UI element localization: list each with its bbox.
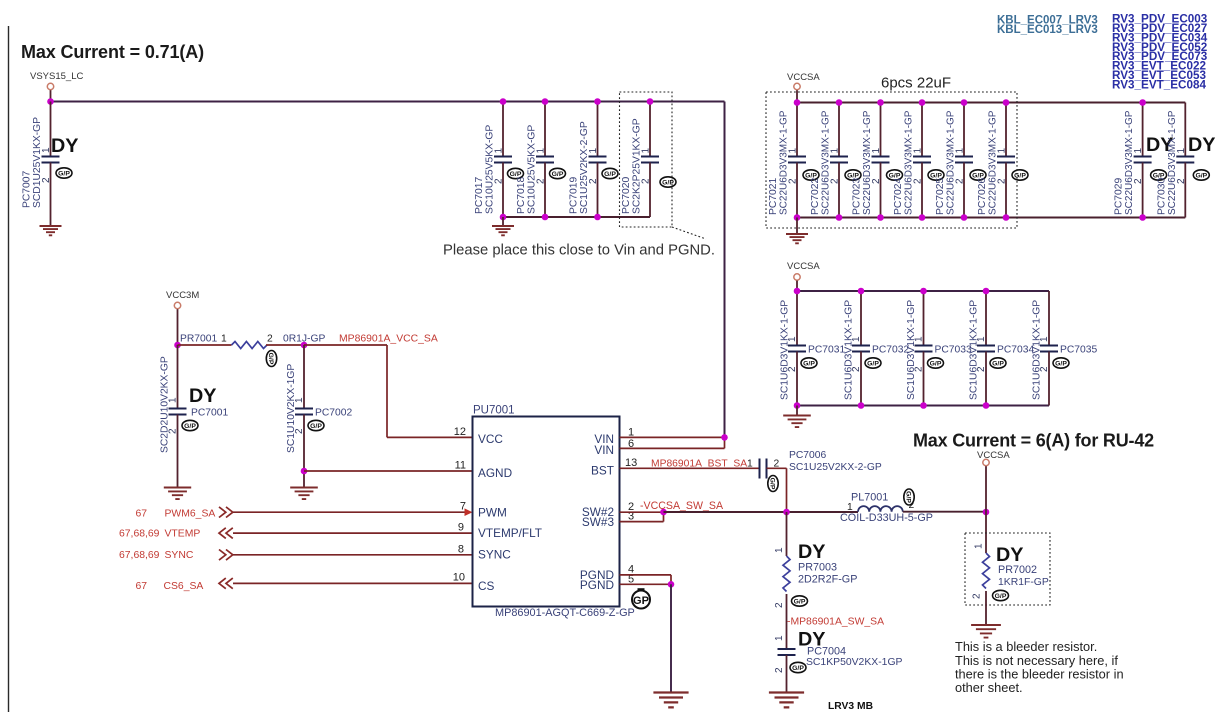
wire PC7026 bottom drop	[1005, 163, 1007, 218]
label DY PR7002	[996, 544, 1023, 566]
wire PC7020 bottom drop	[649, 163, 651, 218]
ic left pin names	[478, 432, 542, 593]
ground PGND	[653, 693, 688, 708]
label DY PR7003	[798, 541, 825, 563]
wire PC7007 bottom drop	[50, 163, 52, 227]
wire vertical bus to VIN	[724, 102, 726, 438]
junction 0R1J	[301, 342, 308, 349]
junction mid-right bottom	[983, 402, 990, 409]
svg-text:1: 1	[871, 148, 882, 154]
svg-text:MP86901A_VCC_SA: MP86901A_VCC_SA	[339, 334, 438, 345]
svg-text:1: 1	[747, 459, 753, 470]
wire PC7002 top drop	[303, 345, 305, 409]
svg-text:1: 1	[1176, 148, 1187, 154]
wire PC7030 top drop	[1184, 103, 1186, 157]
wire PC7021 top drop	[796, 103, 798, 157]
svg-text:SC1U6D3V1KX-1-GP: SC1U6D3V1KX-1-GP	[844, 300, 855, 400]
junction PC7029 top	[1139, 99, 1146, 106]
svg-text:G/P: G/P	[604, 171, 616, 178]
svg-text:SC2K2P25V1KX-GP: SC2K2P25V1KX-GP	[632, 118, 643, 214]
junction SW pins	[660, 509, 667, 516]
svg-text:DY: DY	[51, 135, 78, 157]
wire PC7029 bottom drop	[1142, 163, 1144, 218]
wire mid-right top bus	[797, 290, 1049, 292]
svg-text:SC22U6D3V3MX-1-GP: SC22U6D3V3MX-1-GP	[946, 110, 957, 215]
wire PC7034 bottom drop	[985, 352, 987, 406]
ground PC7002	[290, 488, 318, 500]
svg-text:G/P: G/P	[184, 423, 196, 430]
wire BST	[620, 467, 760, 469]
wire PC7026 top drop	[1005, 103, 1007, 157]
svg-text:VTEMP: VTEMP	[165, 529, 201, 540]
junction top bus	[836, 99, 843, 106]
svg-text:SCD1U25V1KX-GP: SCD1U25V1KX-GP	[32, 117, 43, 208]
capacitor PC7021	[768, 110, 819, 215]
svg-text:SC1U6D3V1KX-1-GP: SC1U6D3V1KX-1-GP	[906, 300, 917, 400]
junction VIN	[721, 434, 728, 441]
svg-text:SC1U25V2KX-2-GP: SC1U25V2KX-2-GP	[579, 121, 590, 214]
svg-text:G/P: G/P	[1014, 172, 1026, 179]
svg-text:-MP86901A_SW_SA: -MP86901A_SW_SA	[787, 617, 884, 628]
node VCCSA terminal mid	[787, 261, 820, 280]
svg-text:11: 11	[455, 460, 466, 472]
wire PC7001 top drop	[177, 345, 179, 409]
junction VSYS15_LC	[47, 98, 54, 105]
dotted leader line	[672, 227, 706, 239]
ground VCCSA top	[786, 234, 808, 243]
svg-text:PC7035: PC7035	[1060, 345, 1097, 356]
ic left pin numbers	[453, 426, 466, 584]
wire PC7023 bottom drop	[880, 163, 882, 218]
wire PC7004 to ground	[786, 655, 788, 693]
svg-text:13: 13	[625, 457, 637, 469]
pin arrow PWM	[465, 508, 473, 516]
svg-text:VCCSA: VCCSA	[787, 72, 820, 83]
wire VSYS15_LC drop	[50, 90, 52, 101]
svg-text:Max Current = 6(A) for RU-42: Max Current = 6(A) for RU-42	[913, 431, 1154, 451]
svg-text:GP: GP	[633, 595, 649, 607]
net -VCCSA_SW_SA	[640, 500, 724, 512]
svg-text:SC22U6D3V3MX-1-GP: SC22U6D3V3MX-1-GP	[904, 110, 915, 215]
svg-text:SC2D2U10V2KX-GP: SC2D2U10V2KX-GP	[160, 356, 171, 453]
label DY PC7029	[1146, 134, 1173, 156]
ground VCCSA mid	[783, 416, 811, 428]
capacitor PC7019	[569, 121, 619, 214]
svg-text:2: 2	[774, 602, 785, 608]
wire VCC run	[304, 345, 473, 437]
wire PC7032 top drop	[860, 291, 862, 346]
svg-text:Please place this close to Vin: Please place this close to Vin and PGND.	[443, 243, 715, 259]
junction mid-right bottom	[794, 402, 801, 409]
svg-text:1: 1	[294, 397, 305, 403]
svg-text:KBL_EC013_LRV3: KBL_EC013_LRV3	[997, 24, 1098, 36]
wire VTEMP	[233, 532, 473, 534]
svg-text:1: 1	[494, 148, 505, 154]
svg-text:67,68,69: 67,68,69	[119, 550, 160, 561]
capacitor PC7007	[22, 117, 73, 208]
title max current 6A	[913, 431, 1154, 451]
svg-text:G/P: G/P	[267, 353, 274, 365]
svg-text:67: 67	[135, 581, 147, 592]
capacitor PC7022	[810, 110, 861, 215]
wire VCCSA mid drop	[796, 281, 798, 291]
svg-text:2D2R2F-GP: 2D2R2F-GP	[798, 573, 857, 585]
wire PC7002 bottom drop	[303, 415, 305, 488]
svg-text:1: 1	[974, 543, 985, 549]
capacitor PC7002	[286, 364, 352, 453]
svg-text:G/P: G/P	[803, 360, 815, 367]
wire PC7024 bottom drop	[921, 163, 923, 218]
wire PC7021 bottom drop	[796, 163, 798, 218]
port SYNC	[119, 550, 233, 562]
svg-text:DY: DY	[996, 544, 1023, 566]
svg-text:9: 9	[458, 522, 464, 534]
page border left line	[8, 26, 10, 712]
wire PC7034 top drop	[985, 291, 987, 346]
svg-text:67,68,69: 67,68,69	[119, 529, 160, 540]
wire PGND pin4	[620, 575, 672, 584]
svg-text:1: 1	[913, 148, 924, 154]
wire PC7032 bottom drop	[860, 352, 862, 406]
junction SW BST	[783, 509, 790, 516]
svg-text:2: 2	[972, 593, 983, 599]
junction mid-right bottom	[920, 402, 927, 409]
svg-text:VCC3M: VCC3M	[166, 290, 199, 301]
svg-text:PC7031: PC7031	[808, 345, 845, 356]
svg-text:PC7017: PC7017	[474, 177, 485, 214]
wire PC7025 top drop	[963, 103, 965, 157]
net MP86901A_VCC_SA	[339, 334, 438, 345]
dotted box 6pcs	[766, 92, 1017, 228]
svg-text:1: 1	[628, 426, 634, 438]
svg-text:SC1U6D3V1KX-1-GP: SC1U6D3V1KX-1-GP	[780, 300, 791, 400]
wire PC7033 bottom drop	[923, 352, 925, 406]
svg-text:1: 1	[851, 336, 862, 342]
wire VCC3M drop	[177, 309, 179, 345]
svg-text:SC22U6D3V3MX-1-GP: SC22U6D3V3MX-1-GP	[1124, 110, 1135, 215]
svg-text:BST: BST	[591, 464, 614, 478]
wire PC7020 top drop	[649, 102, 651, 157]
svg-text:1: 1	[787, 336, 798, 342]
node VSYS15_LC terminal	[30, 71, 83, 90]
junction mid-right bottom	[858, 402, 865, 409]
junction top bus	[919, 99, 926, 106]
svg-text:LRV3 MB: LRV3 MB	[828, 701, 873, 712]
wire SYNC	[233, 554, 473, 556]
junction bottom bus	[961, 214, 968, 221]
capacitor PC7033	[906, 300, 972, 400]
node VCCSA terminal top	[787, 72, 820, 90]
ground PC7004	[769, 693, 804, 708]
label DY PC7007	[51, 135, 78, 157]
svg-text:1: 1	[976, 336, 987, 342]
svg-text:CS: CS	[478, 579, 495, 593]
svg-text:PC7022: PC7022	[810, 178, 821, 215]
svg-text:1: 1	[641, 148, 652, 154]
svg-text:PR7001: PR7001	[180, 334, 217, 345]
junction bottom bus	[594, 214, 601, 221]
svg-text:-VCCSA_SW_SA: -VCCSA_SW_SA	[640, 500, 724, 512]
svg-text:8: 8	[458, 544, 464, 556]
svg-text:This is a bleeder resistor.: This is a bleeder resistor.	[955, 639, 1097, 654]
net list KBL column	[997, 15, 1098, 37]
capacitor PC7025	[935, 110, 986, 215]
capacitor PC7006	[747, 450, 882, 492]
svg-text:PWM: PWM	[478, 506, 507, 520]
wire PR7002 to ground	[985, 591, 987, 625]
svg-text:Max Current = 0.71(A): Max Current = 0.71(A)	[21, 42, 204, 62]
wire VIN pin6	[620, 437, 725, 448]
junction bottom bus	[1003, 214, 1010, 221]
junction mid-right top	[794, 288, 801, 295]
wire PC7029 top drop	[1142, 103, 1144, 157]
wire PC7018 bottom drop	[544, 163, 546, 218]
svg-text:67: 67	[135, 509, 147, 520]
svg-text:G/P: G/P	[1195, 172, 1207, 179]
svg-text:1: 1	[830, 148, 841, 154]
wire to PR7001	[178, 344, 232, 346]
junction bottom bus	[794, 214, 801, 221]
capacitor PC7031	[780, 300, 846, 400]
wire ground drop PC7017	[502, 217, 504, 226]
wire top-right top bus	[797, 102, 1185, 104]
wire PC7017 top drop	[502, 102, 504, 157]
wire SW main	[664, 511, 859, 513]
svg-text:1: 1	[914, 336, 925, 342]
svg-text:PU7001: PU7001	[473, 405, 515, 417]
svg-text:7: 7	[460, 501, 466, 513]
net list RV3 column	[1112, 13, 1208, 92]
svg-text:G/P: G/P	[930, 360, 942, 367]
junction PC7029 bottom	[1139, 214, 1146, 221]
svg-text:G/P: G/P	[995, 593, 1007, 600]
ground mid-top	[492, 226, 514, 235]
wire PGND pin5	[620, 583, 672, 585]
port CS6_SA	[135, 578, 232, 592]
wire SW pin2	[620, 511, 664, 513]
wire PC7019 bottom drop	[597, 163, 599, 218]
svg-text:PC7020: PC7020	[621, 177, 632, 214]
wire mid-top bottom bus	[503, 216, 650, 218]
svg-text:VTEMP/FLT: VTEMP/FLT	[478, 526, 542, 540]
wire ground drop VCCSA top	[796, 218, 798, 235]
label DY PC7001	[189, 385, 216, 407]
node VCCSA terminal out	[977, 450, 1010, 466]
junction mid-right top	[858, 288, 865, 295]
svg-text:1: 1	[1133, 148, 1144, 154]
svg-text:G/P: G/P	[552, 171, 564, 178]
wire SW pin3	[620, 512, 664, 521]
capacitor PC7017	[474, 125, 524, 214]
junction top bus	[542, 98, 549, 105]
wire PR7003 to PC7004	[786, 594, 788, 649]
capacitor PC7018	[516, 125, 566, 214]
svg-text:PC7029: PC7029	[1114, 178, 1125, 215]
junction PGND	[668, 581, 675, 588]
capacitor PC7030	[1156, 110, 1209, 215]
resistor PR7003	[774, 547, 857, 608]
svg-text:DY: DY	[798, 541, 825, 563]
junction top bus	[794, 99, 801, 106]
wire PGND to ground	[670, 584, 672, 692]
svg-text:PGND: PGND	[580, 578, 614, 592]
svg-text:VCC: VCC	[478, 432, 503, 446]
svg-text:PC7023: PC7023	[852, 178, 863, 215]
svg-text:PC7025: PC7025	[935, 178, 946, 215]
wire PC7024 top drop	[921, 103, 923, 157]
svg-text:PC7019: PC7019	[569, 177, 580, 214]
port VTEMP	[119, 528, 233, 540]
svg-text:PC7033: PC7033	[935, 345, 972, 356]
wire PC7035 bottom drop	[1048, 352, 1050, 406]
svg-text:PL7001: PL7001	[851, 492, 888, 504]
ic right pin numbers	[625, 426, 637, 585]
wire PC7007 top drop	[50, 102, 52, 157]
capacitor PC7032	[844, 300, 910, 400]
wire PC7001 bottom drop	[177, 415, 179, 488]
wire SW to VCCSA	[903, 511, 986, 513]
svg-text:G/P: G/P	[58, 170, 70, 177]
svg-text:SW#3: SW#3	[582, 515, 615, 529]
svg-text:1: 1	[168, 397, 179, 403]
capacitor PC7024	[893, 110, 944, 215]
svg-text:RV3_EVT_EC084: RV3_EVT_EC084	[1112, 79, 1206, 92]
svg-text:1: 1	[1039, 336, 1050, 342]
junction top bus	[961, 99, 968, 106]
wire CS6_SA	[233, 582, 473, 584]
wire PR7001 to junction	[266, 344, 304, 346]
wire PC7019 top drop	[597, 102, 599, 157]
wire PC7022 bottom drop	[838, 163, 840, 218]
svg-text:CS6_SA: CS6_SA	[164, 581, 204, 592]
wire PC7023 top drop	[880, 103, 882, 157]
capacitor PC7026	[977, 110, 1028, 215]
junction mid-right top	[920, 288, 927, 295]
node VCC3M terminal	[166, 290, 199, 309]
svg-text:other sheet.: other sheet.	[955, 680, 1023, 695]
ic PU7001 body	[473, 405, 620, 607]
svg-text:MP86901-AGQT-C669-Z-GP: MP86901-AGQT-C669-Z-GP	[495, 607, 635, 619]
svg-text:PC7030: PC7030	[1156, 178, 1167, 215]
junction mid-right top	[983, 288, 990, 295]
wire AGND run	[304, 470, 473, 472]
svg-text:1: 1	[955, 148, 966, 154]
junction bottom bus	[919, 214, 926, 221]
wire PC7017 bottom drop	[502, 163, 504, 218]
ground PC7007	[40, 226, 62, 235]
svg-text:VSYS15_LC: VSYS15_LC	[30, 71, 83, 82]
svg-text:2: 2	[267, 334, 273, 345]
svg-text:1: 1	[997, 148, 1008, 154]
svg-text:1: 1	[774, 635, 785, 641]
svg-text:PC7002: PC7002	[315, 408, 352, 419]
wire PC7031 bottom drop	[796, 352, 798, 406]
svg-text:DY: DY	[798, 629, 825, 651]
inductor PL7001	[840, 489, 933, 524]
resistor PR7002	[972, 543, 1049, 601]
svg-text:1: 1	[774, 547, 785, 553]
junction top bus	[647, 98, 654, 105]
svg-text:SC1KP50V2KX-1GP: SC1KP50V2KX-1GP	[806, 657, 903, 668]
svg-text:SC10U25V5KX-GP: SC10U25V5KX-GP	[485, 125, 496, 214]
svg-text:G/P: G/P	[992, 360, 1004, 367]
wire VCCSA out drop	[985, 466, 987, 553]
junction bottom bus	[877, 214, 884, 221]
svg-text:1: 1	[588, 148, 599, 154]
net -MP86901A_SW_SA	[787, 617, 884, 628]
resistor PR7001	[180, 334, 325, 367]
svg-text:VCCSA: VCCSA	[977, 450, 1010, 461]
svg-text:AGND: AGND	[478, 466, 512, 480]
svg-text:SC22U6D3V3MX-1-GP: SC22U6D3V3MX-1-GP	[862, 110, 873, 215]
net MP86901A_BST_SA	[651, 459, 747, 470]
junction SW VCCSA	[983, 509, 990, 516]
svg-text:SYNC: SYNC	[478, 548, 511, 562]
junction bottom bus	[500, 214, 507, 221]
junction top bus	[594, 98, 601, 105]
svg-text:12: 12	[454, 426, 466, 438]
capacitor PC7001	[160, 356, 229, 453]
svg-text:6pcs 22uF: 6pcs 22uF	[881, 75, 951, 92]
svg-text:SC1U10V2KX-1GP: SC1U10V2KX-1GP	[286, 364, 297, 453]
ic right pin names	[580, 432, 615, 592]
wire PC7022 top drop	[838, 103, 840, 157]
junction bottom bus	[836, 214, 843, 221]
svg-text:G/P: G/P	[792, 665, 804, 672]
svg-text:PC7034: PC7034	[997, 345, 1034, 356]
svg-text:SC22U6D3V3MX-1-GP: SC22U6D3V3MX-1-GP	[821, 110, 832, 215]
svg-text:SC22U6D3V3MX-1-GP: SC22U6D3V3MX-1-GP	[1167, 110, 1178, 215]
svg-text:10: 10	[453, 572, 465, 584]
svg-text:G/P: G/P	[769, 478, 776, 490]
gp circle marker	[632, 590, 650, 609]
svg-text:SC1U25V2KX-2-GP: SC1U25V2KX-2-GP	[789, 462, 882, 473]
capacitor PC7035	[1032, 300, 1098, 400]
svg-text:PC7021: PC7021	[768, 178, 779, 215]
svg-text:DY: DY	[189, 385, 216, 407]
svg-text:G/P: G/P	[1055, 360, 1067, 367]
dotted box PC7020	[620, 92, 673, 227]
svg-text:PWM6_SA: PWM6_SA	[165, 509, 216, 520]
svg-text:SC1U6D3V1KX-1-GP: SC1U6D3V1KX-1-GP	[969, 300, 980, 400]
junction top bus	[500, 98, 507, 105]
svg-text:PR7003: PR7003	[798, 562, 837, 574]
wire PC7035 top drop	[1048, 291, 1050, 346]
capacitor PC7004	[774, 635, 903, 673]
svg-text:G/P: G/P	[867, 360, 879, 367]
svg-text:VCCSA: VCCSA	[787, 261, 820, 272]
ground PR7002	[971, 625, 1001, 638]
ic PU7001 part number	[495, 607, 635, 619]
capacitor PC7023	[852, 110, 903, 215]
svg-text:VIN: VIN	[594, 443, 614, 457]
junction top bus	[877, 99, 884, 106]
wire VSYS15_LC horizontal bus	[51, 101, 725, 103]
svg-text:COIL-D33UH-5-GP: COIL-D33UH-5-GP	[840, 512, 933, 524]
wire mid-right bottom bus	[797, 405, 1049, 407]
svg-text:G/P: G/P	[905, 491, 912, 503]
note place close to Vin	[443, 243, 715, 259]
label DY PC7030	[1188, 134, 1215, 156]
svg-text:PC7024: PC7024	[893, 178, 904, 215]
wire PC7030 bottom drop	[1184, 163, 1186, 218]
wire VIN pin1	[620, 436, 725, 438]
junction AGND	[301, 468, 308, 475]
wire PC7033 top drop	[923, 291, 925, 346]
svg-text:G/P: G/P	[310, 423, 322, 430]
svg-text:SYNC: SYNC	[165, 550, 194, 561]
svg-text:SC22U6D3V3MX-1-GP: SC22U6D3V3MX-1-GP	[988, 110, 999, 215]
